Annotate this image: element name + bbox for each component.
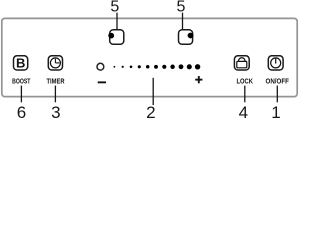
power level dots: [114, 64, 201, 69]
timer button: [48, 56, 62, 70]
svg-text:2: 2: [146, 103, 155, 120]
svg-text:3: 3: [51, 103, 60, 120]
svg-text:5: 5: [177, 0, 186, 16]
residual heat indicator icon right: [179, 30, 194, 45]
leader line 5 left: [116, 13, 118, 30]
minus symbol: [98, 81, 106, 83]
leader line 3: [54, 86, 56, 103]
svg-text:B: B: [16, 56, 25, 71]
plus symbol: [195, 76, 202, 83]
svg-text:BOOST: BOOST: [12, 77, 31, 86]
svg-text:LOCK: LOCK: [237, 77, 254, 86]
svg-text:5: 5: [110, 0, 119, 16]
svg-text:ON/OFF: ON/OFF: [266, 77, 290, 86]
boost button B: [14, 56, 28, 71]
power level indicator circle: [97, 63, 104, 70]
lock button: [234, 56, 249, 70]
leader line 4: [244, 86, 246, 103]
residual heat indicator icon left: [108, 30, 124, 45]
leader line 5 right: [182, 13, 184, 30]
svg-text:6: 6: [17, 103, 26, 120]
leader line 2: [152, 78, 154, 105]
svg-text:1: 1: [271, 103, 280, 120]
leader line 6: [20, 86, 22, 103]
leader line 1: [276, 86, 278, 103]
svg-text:TIMER: TIMER: [47, 77, 66, 86]
svg-text:4: 4: [239, 103, 248, 120]
on/off button: [268, 56, 283, 70]
control panel outline: [2, 18, 297, 96]
